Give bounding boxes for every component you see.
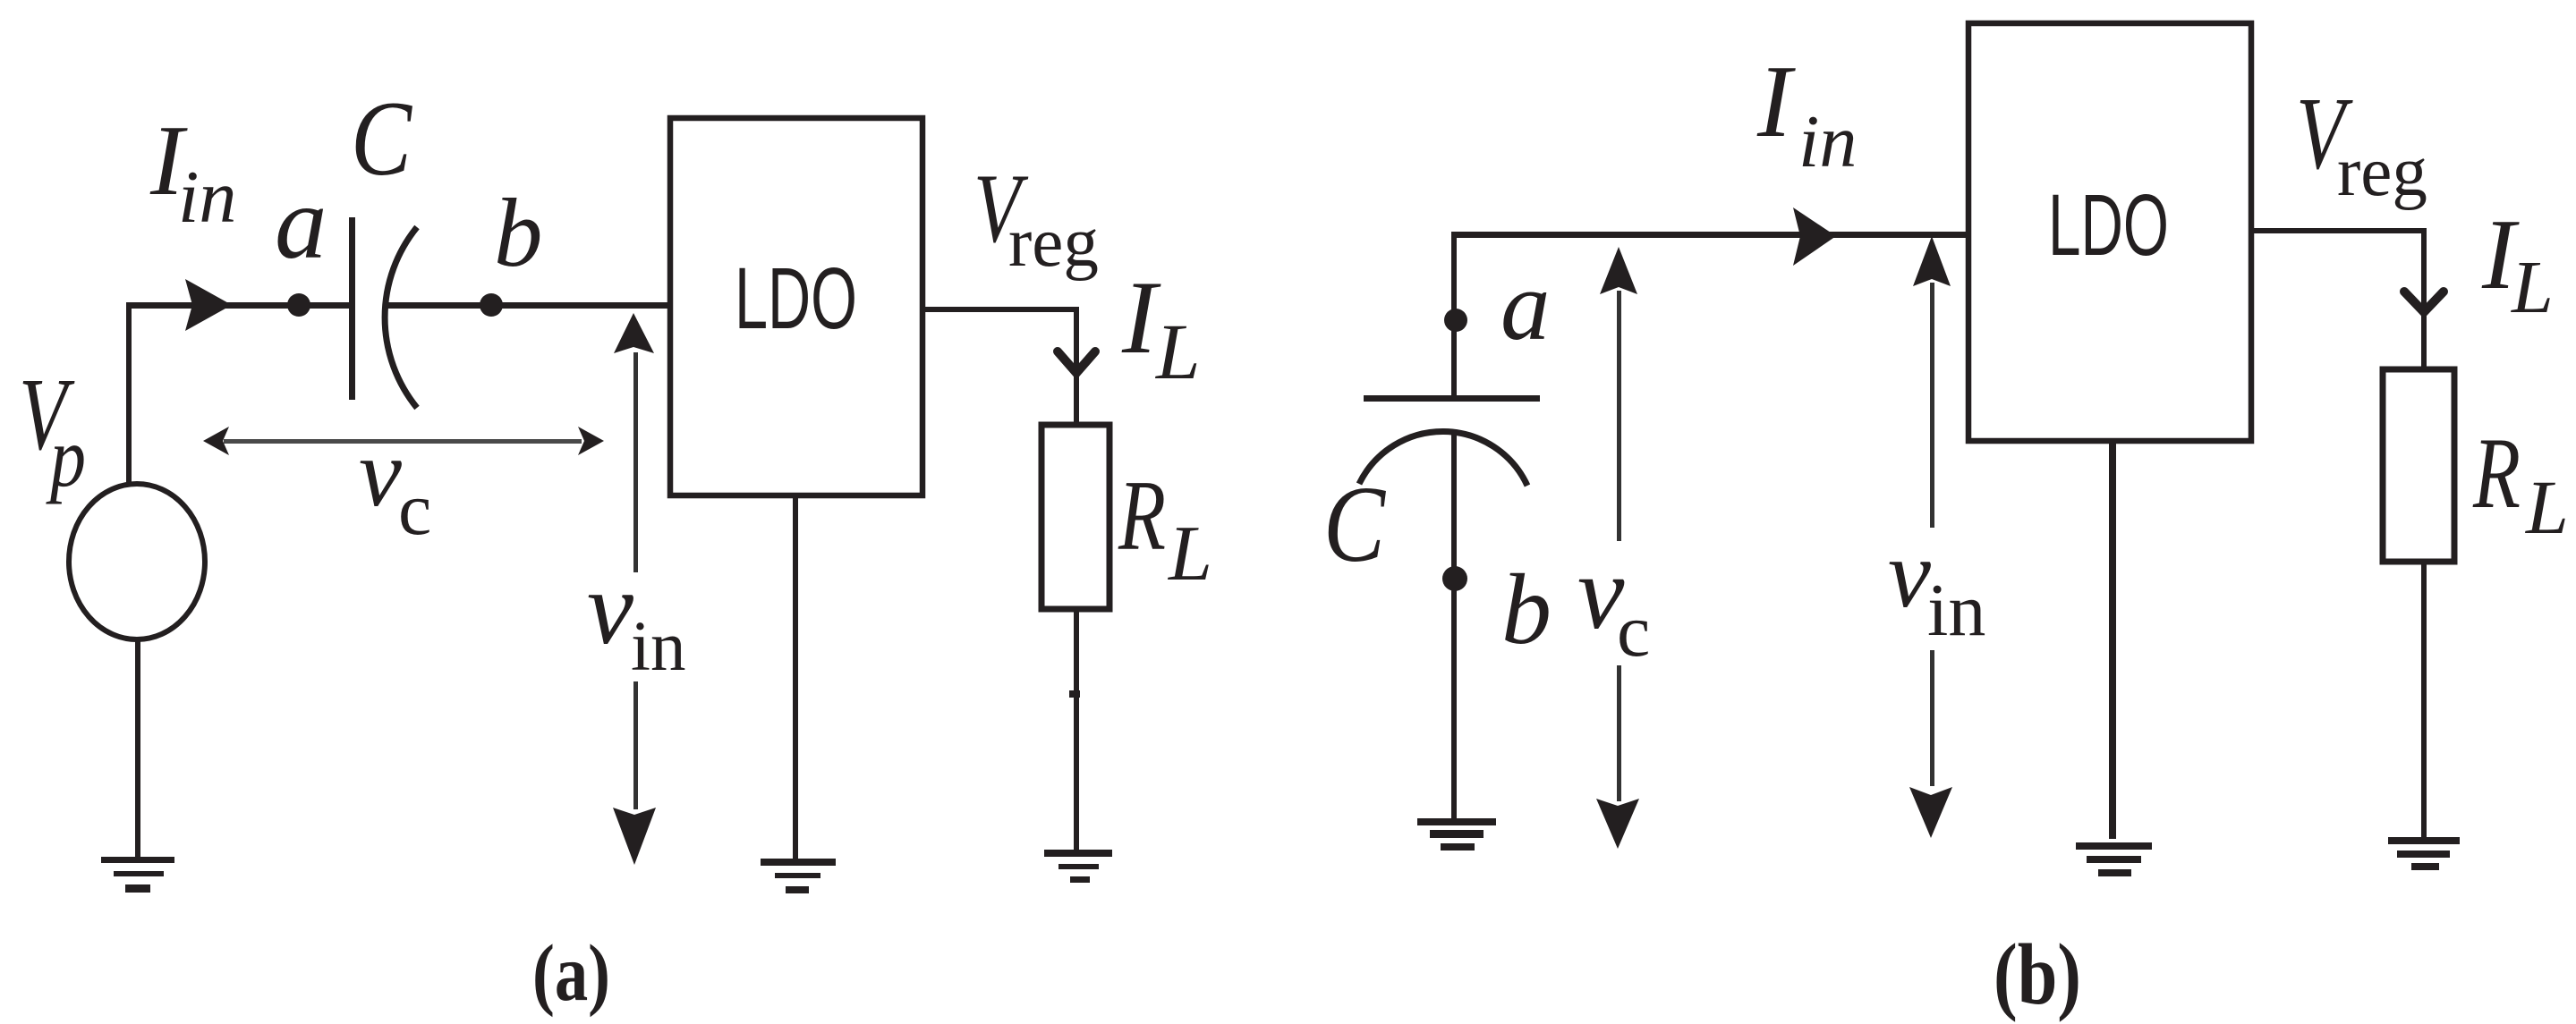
wire LDO to ground b bbox=[2109, 441, 2116, 839]
capacitor C top plate b bbox=[1364, 395, 1540, 402]
ground (capacitor b) bbox=[1417, 818, 1496, 851]
svg-text:R: R bbox=[2472, 418, 2521, 529]
arrowhead v_in bottom b bbox=[1909, 787, 1952, 838]
arrowhead v_c bottom b bbox=[1596, 799, 1639, 849]
wire b to LDO bbox=[385, 302, 673, 309]
capacitor C left plate bbox=[349, 217, 355, 400]
wire capacitor to ground b bbox=[1451, 430, 1457, 821]
svg-text:L: L bbox=[1154, 309, 1201, 396]
ground (LDO b) bbox=[2076, 842, 2152, 876]
svg-text:R: R bbox=[1118, 461, 1166, 571]
svg-text:c: c bbox=[398, 468, 431, 551]
svg-text:b: b bbox=[1501, 554, 1552, 665]
svg-text:(b): (b) bbox=[1994, 927, 2081, 1022]
svg-text:in: in bbox=[1798, 100, 1857, 183]
svg-text:v: v bbox=[359, 420, 402, 527]
svg-text:v: v bbox=[1888, 521, 1931, 628]
ground (load a) bbox=[1044, 850, 1112, 883]
wire source to ground bbox=[135, 639, 140, 857]
svg-text:L: L bbox=[2524, 464, 2569, 550]
arrow I_in b bbox=[1793, 207, 1836, 266]
node b bbox=[480, 293, 503, 317]
svg-text:I: I bbox=[1756, 45, 1796, 158]
wire resistor to ground b bbox=[2421, 562, 2427, 840]
dimension v_in line b bbox=[1930, 283, 1934, 786]
node b b bbox=[1442, 566, 1467, 591]
ground (source) bbox=[101, 857, 174, 893]
dimension v_in line bbox=[633, 352, 638, 809]
svg-text:C: C bbox=[351, 79, 413, 198]
tick mark on wire bbox=[1069, 690, 1080, 698]
wire resistor to ground bbox=[1074, 609, 1079, 850]
arrow I_in bbox=[185, 279, 232, 331]
wire input horizontal bbox=[126, 302, 353, 309]
svg-text:L: L bbox=[2511, 246, 2554, 329]
arrowhead v_in bottom bbox=[613, 808, 656, 865]
svg-text:reg: reg bbox=[1008, 204, 1099, 282]
arrowhead v_in top b bbox=[1913, 236, 1951, 286]
svg-text:reg: reg bbox=[2337, 133, 2427, 211]
svg-text:in: in bbox=[178, 156, 236, 239]
svg-text:p: p bbox=[46, 410, 86, 504]
svg-text:C: C bbox=[1323, 464, 1386, 585]
node a b bbox=[1444, 309, 1467, 332]
svg-text:(a): (a) bbox=[532, 929, 610, 1018]
svg-text:in: in bbox=[631, 608, 685, 686]
svg-text:v: v bbox=[587, 551, 633, 666]
capacitor C curved plate bbox=[385, 227, 417, 408]
voltage source V_p circle bbox=[69, 484, 205, 639]
svg-text:a: a bbox=[1501, 251, 1551, 361]
svg-text:LDO: LDO bbox=[735, 250, 857, 347]
capacitor C curved plate b bbox=[1359, 431, 1527, 486]
wire LDO output bbox=[922, 309, 1076, 425]
arrow I_L chevron b bbox=[2404, 292, 2444, 312]
LDO box U1 bbox=[670, 118, 922, 495]
svg-text:c: c bbox=[1617, 589, 1650, 673]
svg-text:a: a bbox=[275, 165, 327, 281]
arrowhead v_c left bbox=[203, 427, 229, 455]
resistor R_L bbox=[1041, 425, 1109, 609]
dimension v_c line b bbox=[1617, 291, 1621, 801]
wire corner down to capacitor bbox=[1451, 233, 1457, 399]
arrowhead v_in top bbox=[614, 313, 654, 353]
ground (load b) bbox=[2388, 837, 2460, 870]
svg-text:LDO: LDO bbox=[2048, 176, 2169, 274]
dimension v_c line bbox=[224, 439, 582, 444]
wire LDO output b bbox=[2251, 231, 2424, 369]
resistor R_L b bbox=[2383, 369, 2454, 562]
node a bbox=[287, 293, 310, 317]
svg-text:in: in bbox=[1927, 569, 1985, 652]
wire input horizontal b bbox=[1451, 232, 1968, 238]
wire source top vertical bbox=[126, 302, 132, 485]
arrowhead v_c top b bbox=[1600, 247, 1637, 294]
arrowhead v_c right bbox=[578, 427, 604, 455]
wire LDO to ground bbox=[793, 495, 798, 859]
ground (LDO a) bbox=[761, 859, 836, 893]
svg-text:L: L bbox=[1167, 511, 1212, 597]
arrow I_L chevron bbox=[1058, 351, 1095, 373]
LDO box U2 bbox=[1968, 23, 2251, 441]
svg-text:b: b bbox=[494, 179, 543, 287]
